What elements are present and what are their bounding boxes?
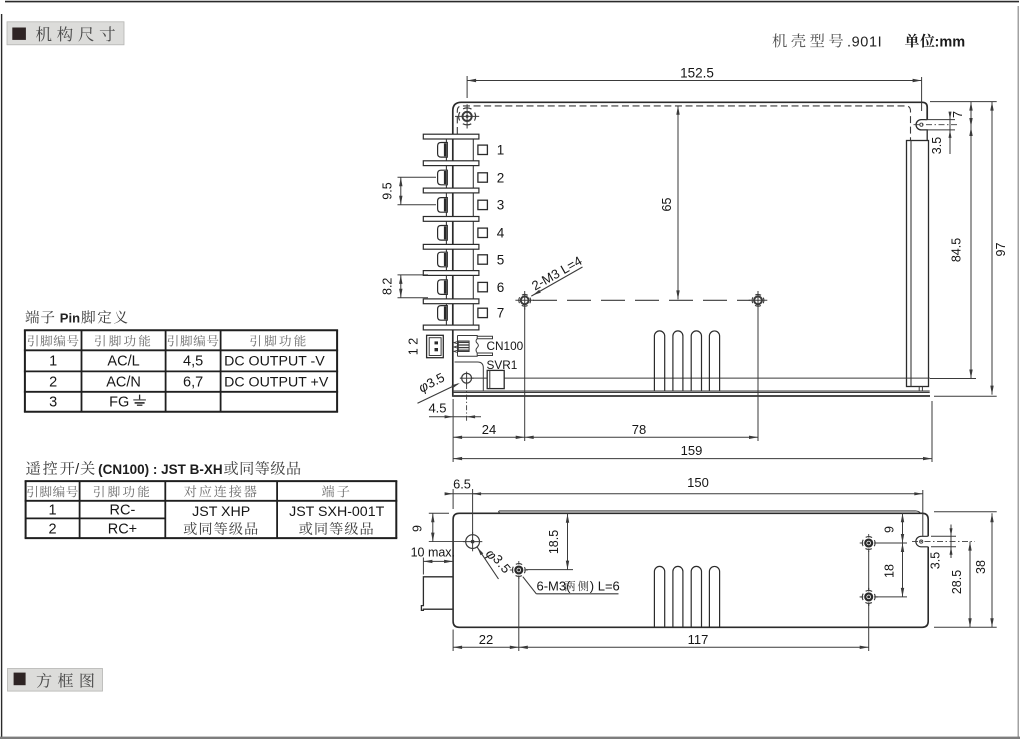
svg-text:6,7: 6,7 bbox=[183, 374, 203, 390]
svg-text:117: 117 bbox=[688, 632, 709, 647]
svg-text::mm: :mm bbox=[935, 34, 966, 50]
svg-text:2: 2 bbox=[497, 170, 505, 185]
svg-text:38: 38 bbox=[974, 560, 988, 574]
svg-text:2: 2 bbox=[49, 522, 57, 538]
svg-text:AC/L: AC/L bbox=[107, 354, 139, 370]
svg-text:97: 97 bbox=[994, 243, 1008, 257]
svg-text:152.5: 152.5 bbox=[680, 65, 714, 80]
svg-text:18: 18 bbox=[882, 564, 896, 578]
svg-text:78: 78 bbox=[632, 422, 646, 437]
svg-text:1 2: 1 2 bbox=[407, 338, 421, 355]
svg-text:22: 22 bbox=[479, 632, 493, 647]
svg-text:1: 1 bbox=[497, 143, 505, 158]
svg-text:DC OUTPUT +V: DC OUTPUT +V bbox=[224, 374, 329, 390]
svg-text:6.5: 6.5 bbox=[453, 477, 471, 492]
svg-text:1: 1 bbox=[49, 503, 57, 519]
svg-text:1: 1 bbox=[49, 354, 57, 370]
svg-text:8.2: 8.2 bbox=[381, 278, 395, 295]
svg-text:Pin: Pin bbox=[60, 311, 80, 326]
svg-text:7: 7 bbox=[951, 111, 965, 118]
svg-text:9: 9 bbox=[411, 525, 425, 532]
svg-text:4: 4 bbox=[497, 226, 505, 241]
svg-text:JST XHP: JST XHP bbox=[192, 504, 250, 520]
svg-text:24: 24 bbox=[482, 422, 496, 437]
svg-text:3.5: 3.5 bbox=[930, 137, 944, 154]
svg-text:6: 6 bbox=[497, 280, 505, 295]
svg-text:3: 3 bbox=[497, 198, 505, 213]
svg-text:3.5: 3.5 bbox=[929, 552, 943, 569]
svg-text:CN100: CN100 bbox=[487, 339, 524, 353]
svg-text:65: 65 bbox=[660, 198, 674, 212]
svg-text:159: 159 bbox=[681, 443, 703, 458]
svg-text:3: 3 bbox=[49, 395, 57, 411]
svg-text:2: 2 bbox=[49, 374, 57, 390]
svg-text:18.5: 18.5 bbox=[547, 530, 561, 554]
svg-text:AC/N: AC/N bbox=[106, 374, 141, 390]
svg-text:150: 150 bbox=[687, 475, 709, 490]
svg-text:JST SXH-001T: JST SXH-001T bbox=[289, 504, 384, 520]
svg-text:(CN100) : JST B-XH: (CN100) : JST B-XH bbox=[98, 462, 223, 477]
svg-text:9.5: 9.5 bbox=[381, 182, 395, 199]
svg-text:DC OUTPUT -V: DC OUTPUT -V bbox=[224, 354, 325, 370]
svg-text:) L=6: ) L=6 bbox=[590, 578, 620, 593]
svg-text:28.5: 28.5 bbox=[950, 570, 964, 594]
svg-text:9: 9 bbox=[882, 526, 896, 533]
svg-text:.901I: .901I bbox=[847, 34, 882, 50]
svg-text:5: 5 bbox=[497, 252, 505, 267]
svg-text:FG: FG bbox=[109, 395, 129, 411]
svg-text:4,5: 4,5 bbox=[183, 354, 203, 370]
svg-text:RC+: RC+ bbox=[108, 522, 137, 538]
svg-text:84.5: 84.5 bbox=[950, 238, 964, 262]
svg-text:7: 7 bbox=[497, 306, 505, 321]
svg-text:4.5: 4.5 bbox=[428, 401, 446, 416]
svg-text:10 max.: 10 max. bbox=[411, 545, 455, 559]
svg-text:RC-: RC- bbox=[110, 503, 136, 519]
